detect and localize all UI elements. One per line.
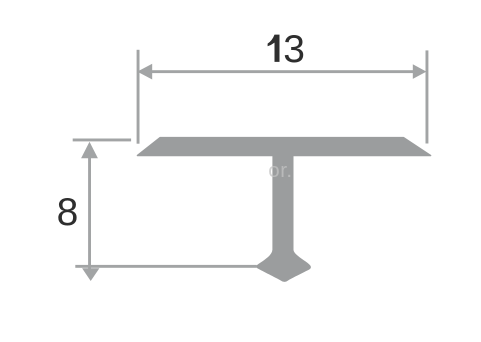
svg-text:3: 3 bbox=[283, 28, 305, 71]
dimension 13: left arrowhead bbox=[137, 64, 152, 80]
dimension 13: horizontal dimension line bbox=[148, 70, 417, 73]
dimension 8: bottom tick line bbox=[75, 265, 256, 268]
dimension 8: top tick line bbox=[73, 139, 131, 142]
dimension 8: down arrowhead bbox=[82, 268, 99, 281]
T-profile foot bbox=[256, 250, 311, 282]
dimension 8: vertical dimension line bbox=[88, 152, 91, 270]
svg-text:8: 8 bbox=[57, 191, 79, 234]
dimension 13: left extension line bbox=[137, 50, 140, 144]
dimension 8: up arrowhead bbox=[81, 142, 98, 158]
svg-text:or.: or. bbox=[268, 159, 292, 182]
T-profile flange bbox=[138, 138, 431, 156]
dimension 13: value label digit 1 bbox=[268, 35, 280, 62]
dimension 13: right arrowhead bbox=[413, 64, 427, 79]
dimension 13: right extension line bbox=[426, 50, 429, 143]
T-profile stem bbox=[272, 155, 293, 256]
